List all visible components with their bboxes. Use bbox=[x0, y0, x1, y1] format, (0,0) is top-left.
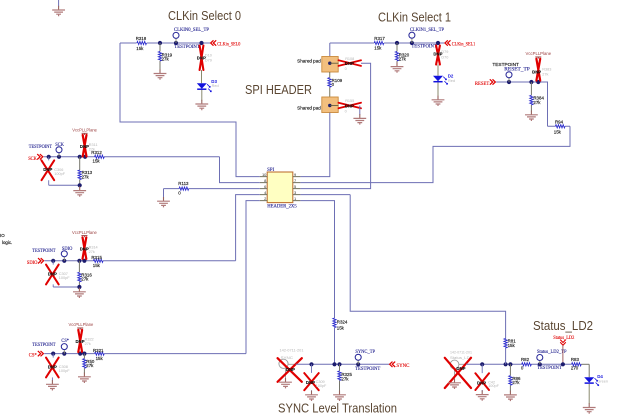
svg-text:R94: R94 bbox=[555, 120, 564, 125]
port CLKin_SEL1 bbox=[445, 40, 476, 47]
capacitor C309 DNP X bbox=[304, 364, 327, 391]
node junction DNP R311 bbox=[83, 155, 87, 159]
node junction DNP R314 bbox=[82, 259, 86, 263]
svg-text:SCK: SCK bbox=[55, 143, 64, 148]
svg-text:VccPLLPlane: VccPLLPlane bbox=[72, 230, 97, 235]
ground C309 bbox=[305, 391, 318, 401]
svg-text:CLKin Select 1: CLKin Select 1 bbox=[378, 11, 451, 25]
svg-text:TESTPOINT: TESTPOINT bbox=[29, 145, 52, 150]
svg-text:15k: 15k bbox=[554, 130, 562, 135]
svg-text:Shared pad: Shared pad bbox=[297, 106, 321, 111]
node junction R324 bottom bbox=[332, 362, 336, 366]
wire DNP diode to LED D3 bbox=[201, 70, 203, 83]
svg-text:15k: 15k bbox=[374, 46, 382, 51]
svg-text:DNP: DNP bbox=[76, 339, 85, 344]
node junction R320 bbox=[395, 41, 399, 45]
svg-text:RESET: RESET bbox=[475, 82, 489, 87]
ground R319 bbox=[154, 69, 167, 79]
port CS* bbox=[29, 351, 44, 359]
svg-text:TESTPOINT: TESTPOINT bbox=[355, 367, 380, 372]
node junction R316 bbox=[77, 259, 81, 263]
svg-text:15k: 15k bbox=[337, 326, 345, 331]
resistor R82 bbox=[521, 357, 531, 370]
svg-text:TESTPOINT: TESTPOINT bbox=[32, 343, 55, 348]
header SPI HEADER_2X5 box bbox=[267, 168, 297, 210]
ground R86 bbox=[504, 391, 517, 401]
wire CLKin0 net horizontal bbox=[120, 42, 210, 44]
svg-text:SPI HEADER: SPI HEADER bbox=[245, 83, 312, 97]
svg-text:SDIO: SDIO bbox=[27, 261, 38, 266]
svg-text:TESTPOINT: TESTPOINT bbox=[537, 366, 562, 371]
LED D4 bbox=[584, 374, 608, 386]
svg-text:SCK: SCK bbox=[28, 157, 37, 162]
resistor R317 bbox=[374, 36, 385, 50]
svg-text:Red: Red bbox=[448, 79, 455, 83]
node junction C42 bbox=[480, 362, 484, 366]
resistor R320 bbox=[395, 43, 409, 63]
svg-text:R321: R321 bbox=[93, 348, 104, 353]
wire CLKin1 net horizontal bbox=[330, 42, 445, 44]
port SYNC bbox=[390, 362, 410, 369]
svg-text:TESTPOINT: TESTPOINT bbox=[32, 249, 55, 254]
svg-text:RESET_TP: RESET_TP bbox=[504, 68, 530, 73]
ground LED D2 bbox=[432, 96, 445, 106]
node junction R325 bbox=[337, 362, 341, 366]
resistor R94 bbox=[548, 120, 571, 135]
svg-text:logic.: logic. bbox=[2, 240, 12, 245]
svg-text:27k: 27k bbox=[533, 100, 541, 105]
svg-text:27k: 27k bbox=[162, 57, 170, 62]
svg-text:DNP: DNP bbox=[433, 51, 442, 56]
svg-text:27k: 27k bbox=[341, 377, 349, 382]
svg-text:D79: D79 bbox=[205, 59, 212, 63]
wire C308 to ground bbox=[51, 377, 53, 380]
wire LED D4 to ground bbox=[588, 384, 590, 404]
svg-text:CLKIN0_SEL_TP: CLKIN0_SEL_TP bbox=[174, 28, 209, 33]
wire SCK net horizontal bbox=[44, 156, 220, 158]
node junction C308 bbox=[51, 352, 55, 356]
node junction DNP R322 bbox=[78, 352, 82, 356]
svg-text:DNP: DNP bbox=[80, 144, 89, 149]
node junction R86 bbox=[508, 362, 512, 366]
svg-text:HEADER_2X5: HEADER_2X5 bbox=[267, 205, 297, 210]
svg-text:R83: R83 bbox=[571, 357, 580, 362]
node junction flag Status_LD2 bbox=[561, 362, 565, 366]
svg-text:R318: R318 bbox=[136, 36, 147, 41]
wire stray stub top-left bbox=[58, 0, 60, 7]
capacitor C308 DNP X bbox=[46, 354, 70, 378]
svg-text:VccPLLPlane: VccPLLPlane bbox=[72, 128, 97, 133]
node junction R384 bbox=[529, 80, 533, 84]
wire R108 to pin5 column bbox=[300, 63, 370, 188]
svg-text:IO: IO bbox=[0, 233, 5, 238]
node junction C306 bbox=[47, 155, 51, 159]
pad shared pad 1 bbox=[322, 57, 339, 73]
svg-text:VccPLLPlane: VccPLLPlane bbox=[69, 322, 94, 327]
pin stubs left of header bbox=[260, 177, 267, 201]
resistor R315 bbox=[91, 255, 103, 268]
wire R155 to ground bbox=[359, 106, 361, 115]
resistor R318 bbox=[137, 41, 147, 44]
capacitor C42 DNP X bbox=[475, 364, 499, 391]
connector 142-0711-201 SYNC (DNP) bbox=[279, 349, 304, 379]
svg-text:VccPLLPlane: VccPLLPlane bbox=[526, 51, 552, 56]
wire LED D2 to ground bbox=[437, 83, 439, 97]
ground SDIO block bbox=[73, 288, 86, 298]
svg-text:R82: R82 bbox=[521, 357, 530, 362]
svg-text:27k: 27k bbox=[542, 72, 548, 76]
svg-text:27k: 27k bbox=[85, 342, 91, 346]
svg-text:27k: 27k bbox=[512, 380, 520, 385]
node junction C307 bbox=[51, 259, 55, 263]
wire SYNC net horizontal bbox=[296, 363, 390, 365]
svg-text:0: 0 bbox=[332, 82, 335, 87]
node junction R81 bottom bbox=[504, 362, 508, 366]
svg-text:15k: 15k bbox=[508, 343, 516, 348]
svg-text:DNP: DNP bbox=[306, 380, 315, 385]
svg-text:DNP: DNP bbox=[43, 167, 52, 172]
net flag Status_LD2 bbox=[553, 336, 575, 364]
testpoint Status_LD2_TP bbox=[537, 350, 567, 371]
svg-text:R322: R322 bbox=[85, 337, 94, 341]
wire C306 bottom to R313 bottom bbox=[49, 184, 80, 186]
node junction testpoint SYNC bbox=[356, 362, 360, 366]
capacitor C307 DNP X bbox=[46, 261, 70, 287]
svg-text:15k: 15k bbox=[93, 263, 101, 268]
svg-text:DNP: DNP bbox=[48, 271, 57, 276]
capacitor C306 DNP X bbox=[42, 157, 66, 186]
svg-text:D10: D10 bbox=[205, 53, 212, 57]
wire RESET net horizontal bbox=[496, 82, 547, 126]
resistor R86 bbox=[509, 364, 521, 391]
ground R50 bbox=[78, 373, 91, 383]
resistor R109 bbox=[328, 72, 343, 97]
svg-text:DNP: DNP bbox=[532, 70, 541, 75]
wire header pin3 down to Status_LD2 bbox=[350, 195, 505, 339]
testpoint CLKIN1_SEL_TP bbox=[409, 28, 444, 50]
wire DNP diode to LED D2 bbox=[437, 65, 439, 76]
svg-text:100pF: 100pF bbox=[59, 369, 70, 373]
diode DNP (not placed) CLKin1 bbox=[433, 46, 448, 65]
svg-text:R324: R324 bbox=[337, 320, 348, 325]
svg-text:142-0711-201: 142-0711-201 bbox=[280, 349, 304, 353]
ground C42 bbox=[476, 390, 489, 400]
svg-text:142-0711-201: 142-0711-201 bbox=[450, 351, 472, 355]
svg-text:15k: 15k bbox=[136, 46, 144, 51]
wire CLKin1 net down to shared pad 1 bbox=[329, 43, 331, 57]
svg-text:Status_LD2: Status_LD2 bbox=[533, 319, 593, 333]
node junction ground SCK bbox=[78, 183, 82, 187]
wire Status_LD2 net horizontal bbox=[466, 363, 572, 365]
ground R113 bbox=[157, 197, 170, 207]
svg-text:15k: 15k bbox=[93, 158, 101, 163]
node junction testpoint CS* bbox=[62, 352, 66, 356]
svg-text:270: 270 bbox=[571, 366, 579, 371]
resistor R313 bbox=[78, 157, 93, 186]
svg-text:27k: 27k bbox=[86, 363, 94, 368]
svg-text:R383: R383 bbox=[542, 68, 551, 72]
node junction testpoint SCK bbox=[57, 155, 61, 159]
svg-text:CS*: CS* bbox=[61, 339, 69, 344]
power flag VccPLLPlane SDIO bbox=[72, 230, 97, 238]
wire header pin7 to RESET net bbox=[300, 126, 570, 194]
ground stray top-left bbox=[52, 6, 65, 16]
resistor R322 DNP (red X) bbox=[76, 330, 94, 352]
wire SCK net to header pin 8 bbox=[220, 157, 260, 183]
ground C308 bbox=[46, 380, 59, 390]
node junction C309 bbox=[309, 362, 313, 366]
node junction DNP R383 bbox=[536, 80, 540, 84]
resistor R384 bbox=[530, 82, 545, 111]
ground LED D3 bbox=[195, 100, 208, 110]
wire R83 to LED D4 bbox=[588, 364, 590, 377]
resistor R319 bbox=[158, 43, 172, 70]
resistor R50 bbox=[83, 354, 95, 374]
power flag VccPLLPlane RESET bbox=[526, 51, 552, 58]
svg-text:15k: 15k bbox=[96, 356, 104, 361]
testpoint SDIO bbox=[32, 247, 72, 261]
svg-text:SPI: SPI bbox=[267, 168, 274, 173]
svg-text:CLKIN1_SEL_TP: CLKIN1_SEL_TP bbox=[410, 28, 444, 33]
port CLKin_SEL0 bbox=[211, 40, 241, 47]
svg-text:SYNC Level Translation: SYNC Level Translation bbox=[278, 402, 397, 416]
pin stubs right of header bbox=[293, 177, 301, 201]
svg-text:0: 0 bbox=[345, 109, 347, 113]
wire LED D3 to ground bbox=[201, 90, 203, 101]
svg-text:DNP: DNP bbox=[80, 247, 89, 252]
svg-text:27k: 27k bbox=[81, 277, 89, 282]
svg-text:TESTPOINT: TESTPOINT bbox=[174, 45, 200, 50]
svg-text:DNP: DNP bbox=[345, 61, 354, 66]
node junction R319 bbox=[158, 41, 162, 45]
connector SYNC DNP X bbox=[278, 358, 302, 382]
svg-text:R317: R317 bbox=[374, 36, 385, 41]
wire CS* net horizontal bbox=[44, 353, 246, 355]
resistor R108 DNP X bbox=[339, 57, 362, 71]
testpoint CLKIN0_SEL_TP bbox=[173, 28, 209, 50]
wire SDIO net horizontal bbox=[44, 260, 235, 262]
svg-text:DNP: DNP bbox=[286, 367, 295, 372]
svg-text:TESTPOINT: TESTPOINT bbox=[411, 45, 437, 50]
resistor R325 bbox=[338, 364, 353, 391]
svg-text:100pF: 100pF bbox=[59, 276, 70, 280]
resistor R314 DNP (red X) bbox=[80, 237, 98, 259]
port RESET bbox=[475, 79, 496, 87]
node junction ground SDIO bbox=[77, 285, 81, 289]
svg-text:SYNC_TP: SYNC_TP bbox=[355, 350, 375, 355]
resistor R113 with ground bbox=[164, 181, 260, 198]
svg-text:SDIO: SDIO bbox=[62, 247, 73, 252]
testpoint CS* bbox=[32, 339, 69, 354]
node junction R50 bbox=[82, 352, 86, 356]
svg-text:27k: 27k bbox=[89, 250, 95, 254]
svg-text:Status_LD2: Status_LD2 bbox=[553, 336, 575, 341]
ground R384 bbox=[525, 111, 538, 121]
wire header pin1 down to SYNC R324 bbox=[300, 201, 334, 365]
svg-text:Green: Green bbox=[597, 380, 608, 384]
resistor R324 bbox=[333, 318, 348, 331]
ground R320 bbox=[391, 62, 404, 72]
ground LED D4 bbox=[583, 403, 596, 413]
node junction testpoint CLKin1 bbox=[410, 41, 414, 45]
svg-text:D4: D4 bbox=[597, 374, 603, 379]
svg-text:100pF: 100pF bbox=[54, 172, 65, 176]
svg-text:Shared pad: Shared pad bbox=[297, 59, 321, 64]
resistor R311 DNP (red X) bbox=[80, 135, 98, 156]
ground SCK block bbox=[73, 186, 86, 196]
svg-text:R311: R311 bbox=[89, 143, 98, 147]
node junction testpoint Status_LD2 bbox=[538, 362, 542, 366]
wire CS* net to header pin 2 bbox=[246, 201, 260, 354]
resistor R155 DNP X bbox=[339, 99, 362, 113]
svg-text:DNP: DNP bbox=[477, 380, 486, 385]
svg-text:CLKin_SEL0: CLKin_SEL0 bbox=[217, 43, 241, 48]
svg-text:DNP: DNP bbox=[48, 364, 57, 369]
resistor R321 bbox=[93, 348, 104, 361]
wire CLKin0 net down-jog to header pin 10 bbox=[120, 43, 260, 177]
svg-text:R314: R314 bbox=[89, 245, 98, 249]
svg-text:TESTPOINT: TESTPOINT bbox=[492, 62, 519, 67]
LED D3 bbox=[197, 79, 219, 92]
svg-text:DNP: DNP bbox=[197, 56, 206, 61]
svg-text:27k: 27k bbox=[399, 57, 407, 62]
LED D2 bbox=[433, 74, 455, 85]
resistor R83 bbox=[571, 357, 581, 371]
svg-text:DNP: DNP bbox=[345, 103, 354, 108]
ground SYNC connector bbox=[279, 378, 292, 388]
ground R155 bbox=[353, 114, 366, 124]
node junction testpoint SDIO bbox=[62, 259, 66, 263]
connector Status_LD2 DNP X bbox=[445, 358, 471, 388]
port SCK bbox=[28, 154, 43, 162]
svg-text:100pF: 100pF bbox=[316, 384, 327, 388]
svg-text:CLKin_SEL1: CLKin_SEL1 bbox=[452, 43, 476, 48]
svg-text:R113: R113 bbox=[178, 181, 189, 186]
svg-text:27k: 27k bbox=[82, 174, 90, 179]
testpoint RESET_TP bbox=[492, 62, 530, 82]
svg-text:CLKin Select 0: CLKin Select 0 bbox=[168, 9, 241, 23]
svg-text:DNP: DNP bbox=[456, 366, 465, 371]
svg-text:R315: R315 bbox=[91, 255, 102, 260]
ground R325 bbox=[333, 391, 346, 401]
testpoint SCK bbox=[29, 143, 65, 157]
svg-text:100pF: 100pF bbox=[488, 384, 499, 388]
node junction DNP diode CLKin1 bbox=[436, 41, 440, 45]
node junction testpoint RESET bbox=[507, 80, 511, 84]
svg-text:Status_LD2_TP: Status_LD2_TP bbox=[537, 350, 567, 355]
resistor R383 DNP (red X) bbox=[532, 59, 551, 81]
ground Status_LD2 connector bbox=[448, 379, 461, 389]
power flag VccPLLPlane CS* bbox=[69, 322, 94, 330]
svg-text:Red: Red bbox=[212, 84, 219, 88]
resistor R81 bbox=[504, 338, 516, 364]
node junction DNP diode CLKin0 bbox=[199, 41, 203, 45]
resistor R312 bbox=[91, 150, 104, 164]
testpoint SYNC_TP bbox=[355, 350, 380, 372]
power flag VccPLLPlane SCK bbox=[72, 128, 97, 136]
node junction R313 bbox=[78, 155, 82, 159]
connector 142-0711-201 Status_LD2 (DNP) bbox=[450, 351, 472, 380]
wire SDIO net to header pin 4 bbox=[236, 195, 260, 261]
svg-text:SYNC: SYNC bbox=[396, 364, 409, 369]
wire C307 bottom to R316 bottom bbox=[53, 286, 79, 288]
node junction testpoint CLKin0 bbox=[174, 41, 178, 45]
wire shared pad 2 to header pin 9 bbox=[300, 113, 329, 177]
resistor R316 bbox=[78, 261, 93, 287]
diode DNP (not placed) CLKin0 bbox=[197, 46, 212, 71]
svg-text:R312: R312 bbox=[91, 150, 102, 155]
port SDIO bbox=[27, 258, 44, 266]
svg-text:CS*: CS* bbox=[29, 354, 38, 359]
pad shared pad 2 bbox=[322, 97, 339, 113]
svg-text:10: 10 bbox=[262, 172, 267, 177]
svg-text:0: 0 bbox=[345, 67, 347, 71]
